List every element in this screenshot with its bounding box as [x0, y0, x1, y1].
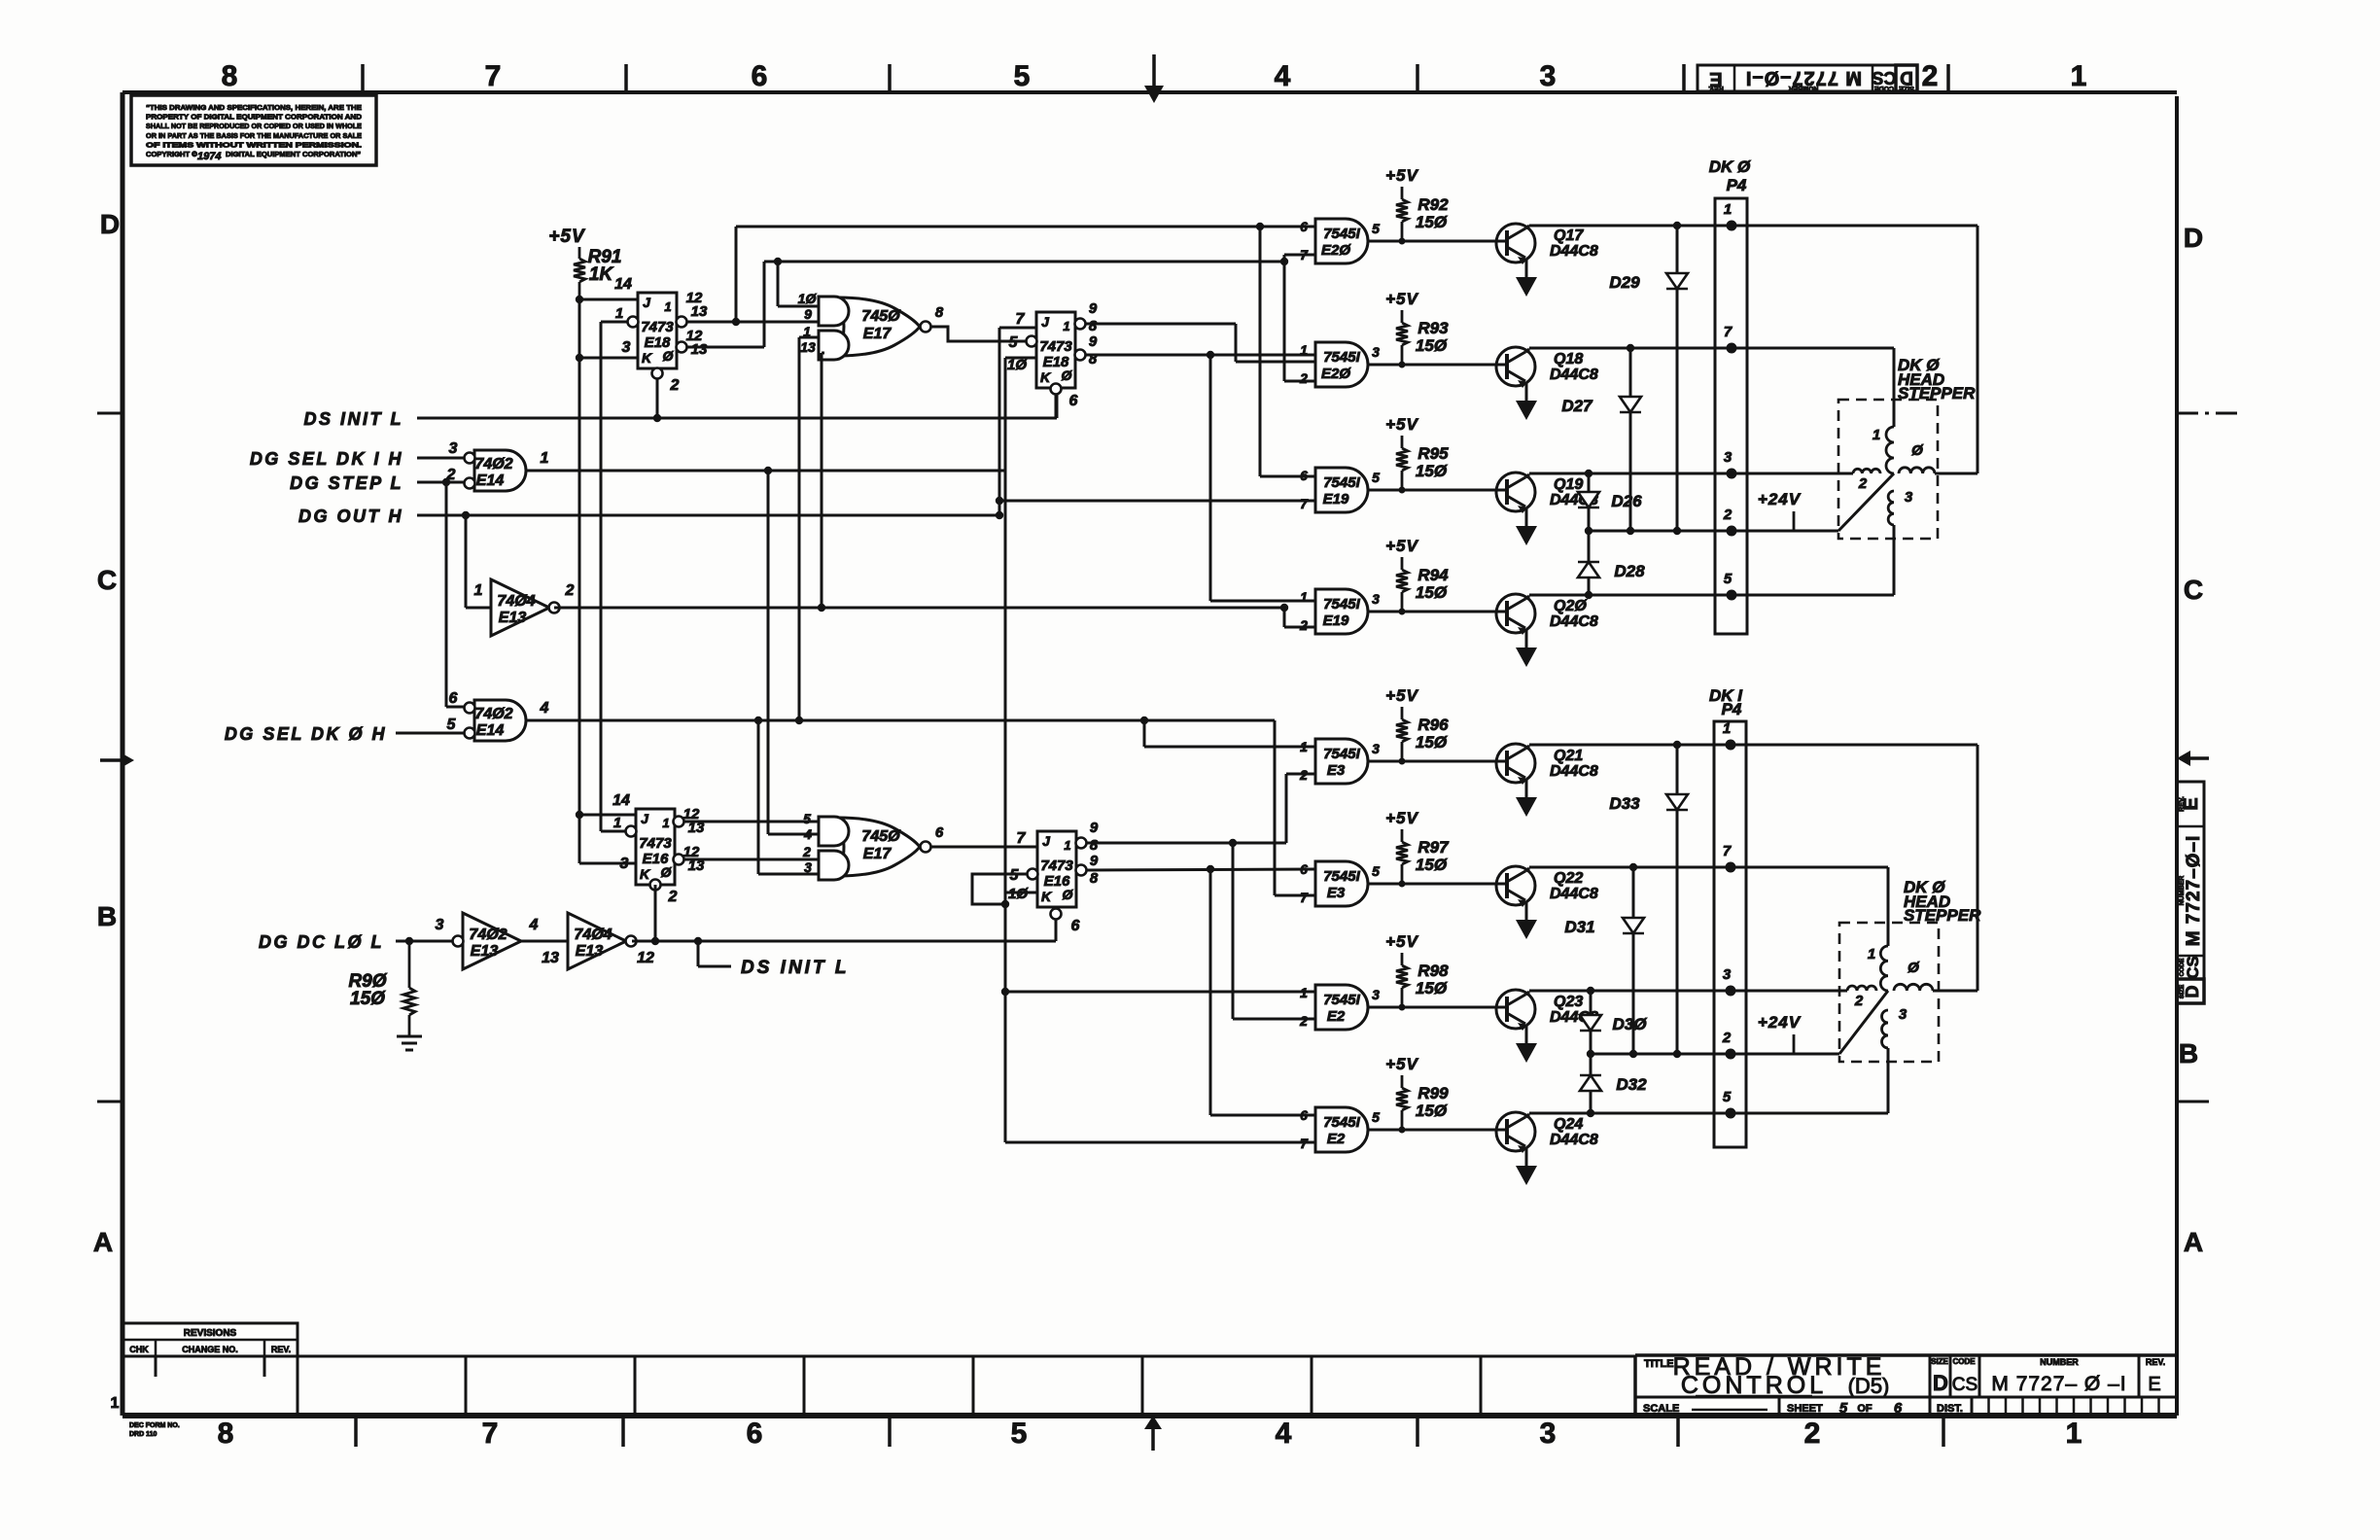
svg-text:DG SEL DK Ø H: DG SEL DK Ø H — [225, 724, 387, 744]
svg-text:3: 3 — [1905, 489, 1913, 506]
svg-text:9: 9 — [1089, 300, 1098, 317]
svg-text:6: 6 — [1894, 1400, 1903, 1417]
svg-text:1: 1 — [1063, 319, 1069, 333]
svg-text:6: 6 — [1300, 1107, 1308, 1123]
svg-text:4: 4 — [1276, 1417, 1292, 1450]
svg-text:D: D — [1933, 1371, 1948, 1395]
svg-text:3: 3 — [1540, 60, 1557, 92]
svg-text:Ø: Ø — [1063, 887, 1074, 902]
svg-text:7473: 7473 — [639, 835, 672, 852]
svg-text:8: 8 — [1090, 870, 1099, 887]
svg-text:5: 5 — [1372, 470, 1380, 485]
svg-text:REV.: REV. — [271, 1345, 291, 1354]
svg-text:1: 1 — [541, 450, 549, 467]
svg-text:3: 3 — [620, 856, 629, 872]
svg-text:OF: OF — [1857, 1403, 1872, 1415]
svg-text:6: 6 — [752, 60, 768, 92]
svg-text:1Ø: 1Ø — [798, 291, 818, 306]
svg-text:D31: D31 — [1564, 918, 1594, 936]
svg-text:3: 3 — [1724, 449, 1732, 466]
svg-text:CODE: CODE — [1952, 1357, 1976, 1366]
svg-text:9: 9 — [1089, 333, 1098, 350]
svg-text:D27: D27 — [1561, 397, 1593, 415]
svg-text:SHALL NOT BE REPRODUCED OR COP: SHALL NOT BE REPRODUCED OR COPIED OR USE… — [146, 122, 362, 130]
svg-text:C: C — [97, 565, 117, 595]
svg-text:3: 3 — [1372, 741, 1380, 756]
svg-text:8: 8 — [935, 304, 944, 321]
svg-text:J: J — [1041, 314, 1050, 330]
svg-text:SIZE: SIZE — [2179, 984, 2186, 998]
svg-text:5: 5 — [803, 811, 811, 826]
svg-text:Ø: Ø — [1911, 442, 1924, 459]
svg-text:9: 9 — [804, 306, 812, 322]
svg-text:E2: E2 — [1327, 1008, 1346, 1025]
svg-text:D44C8: D44C8 — [1550, 886, 1598, 902]
svg-text:E17: E17 — [863, 846, 892, 862]
svg-text:7: 7 — [485, 60, 502, 92]
svg-text:REVISIONS: REVISIONS — [184, 1328, 237, 1339]
svg-text:B: B — [2179, 1038, 2198, 1068]
svg-text:CS: CS — [1872, 68, 1896, 87]
svg-text:3: 3 — [1372, 987, 1380, 1002]
svg-text:K: K — [642, 350, 652, 366]
svg-text:13: 13 — [691, 341, 708, 358]
svg-text:7545I: 7545I — [1323, 746, 1360, 762]
svg-text:15Ø: 15Ø — [1416, 1102, 1448, 1120]
svg-text:OF ITEMS WITHOUT WRITTEN PERMI: OF ITEMS WITHOUT WRITTEN PERMISSION. — [146, 140, 362, 149]
svg-text:7545I: 7545I — [1323, 1114, 1360, 1131]
svg-text:NUMBER: NUMBER — [1789, 85, 1819, 91]
svg-text:5: 5 — [1372, 221, 1380, 236]
svg-text:REV.: REV. — [2146, 1357, 2165, 1367]
svg-text:1: 1 — [613, 815, 621, 831]
svg-text:E13: E13 — [471, 943, 499, 960]
svg-text:2: 2 — [668, 889, 678, 905]
svg-text:J: J — [1042, 833, 1051, 849]
svg-text:2: 2 — [446, 467, 456, 483]
svg-text:1Ø: 1Ø — [1007, 357, 1028, 373]
svg-text:A: A — [2184, 1227, 2203, 1257]
svg-text:+5V: +5V — [548, 227, 585, 247]
svg-text:Q24: Q24 — [1554, 1116, 1583, 1133]
svg-text:+5V: +5V — [1385, 166, 1418, 185]
svg-text:7545I: 7545I — [1323, 474, 1360, 491]
svg-text:D3Ø: D3Ø — [1613, 1015, 1648, 1033]
svg-text:1: 1 — [1872, 427, 1880, 443]
svg-text:6: 6 — [747, 1417, 763, 1450]
svg-text:J: J — [643, 295, 651, 310]
svg-text:B: B — [97, 901, 117, 931]
svg-text:D44C8: D44C8 — [1550, 763, 1598, 780]
svg-text:D: D — [2184, 223, 2203, 253]
svg-text:2: 2 — [1299, 617, 1308, 633]
svg-text:DG DC LØ L: DG DC LØ L — [259, 932, 384, 952]
svg-text:7: 7 — [1300, 1136, 1309, 1151]
svg-text:DG STEP L: DG STEP L — [290, 473, 403, 493]
svg-text:15Ø: 15Ø — [1416, 213, 1448, 231]
svg-text:R99: R99 — [1417, 1084, 1449, 1102]
svg-text:CODE: CODE — [1874, 85, 1895, 91]
svg-text:CODE: CODE — [2179, 958, 2186, 976]
svg-text:OR IN PART AS THE BASIS FOR TH: OR IN PART AS THE BASIS FOR THE MANUFACT… — [146, 131, 362, 140]
svg-text:8: 8 — [1089, 318, 1098, 334]
svg-text:14: 14 — [614, 276, 632, 293]
svg-text:DRD 110: DRD 110 — [129, 1431, 157, 1438]
svg-text:K: K — [1040, 369, 1051, 385]
svg-text:DS INIT L: DS INIT L — [741, 958, 849, 978]
svg-text:74Ø4: 74Ø4 — [574, 927, 612, 943]
svg-text:5: 5 — [1839, 1400, 1848, 1417]
svg-text:5: 5 — [1014, 60, 1031, 92]
svg-text:3: 3 — [622, 339, 631, 356]
svg-text:2: 2 — [1299, 767, 1308, 783]
svg-text:PROPERTY OF DIGITAL EQUIPMENT: PROPERTY OF DIGITAL EQUIPMENT CORPORATIO… — [146, 113, 363, 122]
svg-text:8: 8 — [218, 1417, 234, 1450]
svg-text:DIST.: DIST. — [1937, 1403, 1963, 1415]
svg-text:9: 9 — [1090, 820, 1099, 836]
svg-text:3: 3 — [436, 917, 444, 933]
svg-text:1: 1 — [2066, 1417, 2082, 1450]
svg-text:1: 1 — [615, 305, 623, 322]
svg-text:SHEET: SHEET — [1787, 1403, 1823, 1415]
svg-text:7: 7 — [1300, 496, 1309, 511]
svg-text:7473: 7473 — [1040, 857, 1073, 874]
svg-text:D33: D33 — [1609, 794, 1640, 813]
svg-text:5: 5 — [1723, 1089, 1732, 1105]
svg-text:7545I: 7545I — [1323, 226, 1360, 242]
svg-text:13: 13 — [800, 339, 816, 355]
svg-text:4: 4 — [1275, 60, 1291, 92]
svg-text:K: K — [1041, 889, 1052, 904]
svg-text:7473: 7473 — [641, 319, 674, 335]
svg-text:+5V: +5V — [1385, 932, 1418, 951]
svg-text:D: D — [2183, 986, 2202, 998]
svg-text:7: 7 — [482, 1417, 499, 1450]
svg-text:+5V: +5V — [1385, 415, 1418, 434]
svg-text:1: 1 — [1724, 201, 1732, 218]
svg-text:Ø: Ø — [663, 348, 675, 364]
svg-text:E3: E3 — [1327, 885, 1346, 901]
svg-text:5: 5 — [1009, 334, 1019, 351]
svg-text:74Ø4: 74Ø4 — [497, 593, 535, 610]
svg-text:5: 5 — [1011, 1417, 1028, 1450]
svg-text:15Ø: 15Ø — [1416, 979, 1448, 997]
svg-text:M 7727–Ø–I: M 7727–Ø–I — [2184, 835, 2204, 947]
svg-text:E2: E2 — [1327, 1131, 1346, 1147]
svg-text:E2Ø: E2Ø — [1321, 242, 1351, 259]
svg-text:STEPPER: STEPPER — [1904, 906, 1981, 925]
svg-text:E14: E14 — [476, 472, 505, 489]
svg-text:15Ø: 15Ø — [1416, 462, 1448, 480]
svg-text:E14: E14 — [476, 722, 505, 739]
svg-text:+24V: +24V — [1758, 490, 1802, 508]
svg-text:1: 1 — [1300, 739, 1308, 754]
svg-text:1: 1 — [664, 299, 671, 314]
svg-text:745Ø: 745Ø — [861, 308, 900, 325]
svg-text:8: 8 — [1090, 837, 1099, 854]
svg-text:2: 2 — [1922, 60, 1939, 92]
svg-text:745Ø: 745Ø — [861, 828, 900, 845]
svg-text:CHK: CHK — [129, 1345, 149, 1354]
svg-text:STEPPER: STEPPER — [1898, 384, 1976, 402]
svg-text:9: 9 — [1090, 853, 1099, 869]
svg-text:NUMBER: NUMBER — [2040, 1357, 2079, 1367]
svg-text:2: 2 — [670, 377, 680, 394]
svg-text:DIGITAL EQUIPMENT CORPORATION”: DIGITAL EQUIPMENT CORPORATION” — [226, 150, 361, 158]
svg-text:E3: E3 — [1327, 762, 1346, 779]
svg-text:2: 2 — [1722, 1030, 1732, 1046]
svg-text:SIZE: SIZE — [1931, 1357, 1948, 1366]
svg-text:5: 5 — [1372, 1109, 1380, 1125]
svg-text:1: 1 — [111, 1395, 120, 1412]
svg-text:1: 1 — [1723, 720, 1731, 737]
svg-text:13: 13 — [542, 950, 559, 966]
svg-text:1K: 1K — [589, 264, 614, 285]
svg-text:+5V: +5V — [1385, 686, 1418, 705]
svg-text:1: 1 — [1868, 946, 1875, 962]
svg-text:R92: R92 — [1417, 195, 1449, 214]
svg-text:7: 7 — [1724, 324, 1732, 340]
svg-text:+5V: +5V — [1385, 290, 1418, 308]
svg-text:D44C8: D44C8 — [1550, 1132, 1598, 1148]
svg-text:P4: P4 — [1722, 700, 1742, 718]
svg-text:7545I: 7545I — [1323, 868, 1360, 885]
svg-text:1: 1 — [1300, 589, 1308, 605]
svg-text:K: K — [640, 866, 650, 882]
svg-text:E: E — [2148, 1374, 2160, 1395]
svg-text:7: 7 — [1723, 843, 1732, 859]
svg-text:7473: 7473 — [1039, 338, 1072, 355]
svg-text:TITLE: TITLE — [1644, 1358, 1674, 1370]
svg-text:13: 13 — [691, 303, 708, 320]
svg-text:E19: E19 — [1323, 612, 1349, 629]
svg-text:Q23: Q23 — [1554, 994, 1583, 1010]
svg-text:CHANGE NO.: CHANGE NO. — [182, 1345, 238, 1354]
svg-text:NUMBER: NUMBER — [2179, 876, 2186, 906]
svg-text:3: 3 — [1372, 344, 1380, 360]
svg-text:7: 7 — [1300, 890, 1309, 905]
svg-text:C: C — [2184, 575, 2203, 605]
svg-text:3: 3 — [1723, 966, 1732, 983]
svg-text:A: A — [93, 1227, 113, 1257]
svg-text:14: 14 — [612, 792, 630, 809]
svg-text:Ø: Ø — [1907, 960, 1920, 976]
svg-text:6: 6 — [1300, 468, 1308, 483]
svg-text:2: 2 — [565, 582, 575, 599]
svg-text:D29: D29 — [1609, 273, 1640, 292]
svg-text:3: 3 — [449, 440, 458, 457]
svg-text:5: 5 — [1372, 863, 1380, 879]
svg-text:+5V: +5V — [1385, 809, 1418, 827]
svg-text:E17: E17 — [863, 326, 892, 342]
svg-text:REV.: REV. — [2179, 796, 2186, 812]
svg-text:R95: R95 — [1417, 444, 1449, 463]
svg-text:7545I: 7545I — [1323, 596, 1360, 612]
svg-text:1: 1 — [2071, 60, 2087, 92]
svg-text:D: D — [1900, 67, 1913, 87]
svg-text:+5V: +5V — [1385, 537, 1418, 555]
svg-text:15Ø: 15Ø — [1416, 336, 1448, 355]
svg-text:7545I: 7545I — [1323, 992, 1360, 1008]
svg-text:15Ø: 15Ø — [1416, 733, 1448, 752]
svg-text:E13: E13 — [576, 943, 604, 960]
svg-text:3: 3 — [1540, 1417, 1557, 1450]
svg-text:R97: R97 — [1417, 838, 1450, 857]
svg-text:1: 1 — [474, 582, 483, 599]
svg-text:Q17: Q17 — [1554, 227, 1584, 244]
svg-text:R93: R93 — [1417, 319, 1449, 337]
svg-text:Q2Ø: Q2Ø — [1554, 598, 1587, 614]
svg-text:Ø: Ø — [1062, 367, 1073, 383]
svg-text:6: 6 — [1300, 861, 1308, 877]
svg-text:DK Ø: DK Ø — [1709, 157, 1751, 176]
svg-text:Q21: Q21 — [1554, 748, 1583, 764]
svg-text:3: 3 — [1372, 591, 1380, 607]
svg-text:D44C8: D44C8 — [1550, 367, 1598, 383]
svg-text:2: 2 — [802, 844, 811, 859]
svg-text:D: D — [100, 209, 120, 239]
svg-text:P4: P4 — [1727, 176, 1747, 194]
svg-text:E13: E13 — [499, 610, 527, 626]
svg-text:5: 5 — [447, 717, 457, 733]
svg-text:Q18: Q18 — [1554, 351, 1583, 367]
svg-text:D26: D26 — [1611, 492, 1642, 510]
svg-text:7: 7 — [1017, 830, 1027, 847]
svg-text:2: 2 — [1299, 370, 1308, 386]
svg-text:15Ø: 15Ø — [1416, 583, 1448, 602]
svg-text:7545I: 7545I — [1323, 349, 1360, 366]
svg-text:1: 1 — [1300, 985, 1308, 1000]
svg-text:DEC FORM NO.: DEC FORM NO. — [129, 1422, 180, 1429]
svg-text:D44C8: D44C8 — [1550, 613, 1598, 630]
svg-text:D44C8: D44C8 — [1550, 243, 1598, 260]
svg-text:74Ø2: 74Ø2 — [474, 456, 512, 472]
svg-text:REV.: REV. — [1708, 85, 1724, 91]
svg-text:74Ø2: 74Ø2 — [474, 706, 512, 722]
svg-text:Q22: Q22 — [1554, 870, 1583, 887]
svg-text:6: 6 — [935, 824, 944, 841]
svg-text:SCALE: SCALE — [1643, 1403, 1679, 1415]
svg-text:+5V: +5V — [1385, 1055, 1418, 1073]
svg-text:“THIS DRAWING AND SPECIFICATIO: “THIS DRAWING AND SPECIFICATIONS, HEREIN… — [146, 103, 362, 112]
svg-text:D32: D32 — [1616, 1075, 1647, 1094]
svg-text:D28: D28 — [1614, 562, 1645, 580]
svg-text:6: 6 — [1300, 219, 1308, 234]
svg-text:1974: 1974 — [197, 151, 221, 162]
svg-text:J: J — [641, 811, 649, 826]
svg-text:4: 4 — [540, 700, 549, 717]
svg-text:6: 6 — [1071, 918, 1080, 934]
svg-text:CS: CS — [2184, 956, 2202, 979]
svg-text:74Ø2: 74Ø2 — [469, 927, 507, 943]
svg-text:8: 8 — [222, 60, 238, 92]
svg-text:6: 6 — [1069, 393, 1078, 409]
svg-text:3: 3 — [1899, 1006, 1907, 1023]
svg-text:1: 1 — [1064, 838, 1070, 853]
svg-text:E2Ø: E2Ø — [1321, 366, 1351, 382]
svg-text:15Ø: 15Ø — [350, 989, 386, 1009]
svg-text:4: 4 — [529, 917, 539, 933]
svg-text:DG SEL DK I H: DG SEL DK I H — [250, 449, 403, 469]
svg-text:7: 7 — [1016, 311, 1026, 328]
svg-text:M 7727– Ø –I: M 7727– Ø –I — [1991, 1373, 2126, 1395]
svg-text:COPYRIGHT ©: COPYRIGHT © — [146, 150, 197, 158]
svg-text:7: 7 — [1300, 247, 1309, 262]
svg-text:6: 6 — [449, 690, 458, 707]
svg-text:E19: E19 — [1323, 491, 1349, 507]
svg-text:12: 12 — [637, 950, 654, 966]
svg-text:+24V: +24V — [1758, 1013, 1802, 1032]
svg-text:2: 2 — [1723, 507, 1732, 523]
svg-text:R98: R98 — [1417, 962, 1449, 980]
svg-text:2: 2 — [1804, 1417, 1821, 1450]
svg-text:2: 2 — [1299, 1013, 1308, 1029]
svg-text:2: 2 — [1858, 475, 1868, 492]
svg-text:R96: R96 — [1417, 716, 1449, 734]
svg-text:SIZE: SIZE — [1899, 85, 1914, 91]
svg-text:Ø: Ø — [661, 864, 673, 880]
svg-text:DG OUT H: DG OUT H — [298, 507, 403, 526]
svg-text:CS: CS — [1952, 1375, 1977, 1395]
svg-text:2: 2 — [1854, 993, 1864, 1009]
svg-text:DS INIT L: DS INIT L — [304, 409, 404, 429]
svg-text:5: 5 — [1724, 571, 1732, 587]
svg-text:1: 1 — [662, 816, 669, 830]
svg-text:1: 1 — [1300, 342, 1308, 358]
svg-text:R94: R94 — [1417, 566, 1449, 584]
svg-text:(D5): (D5) — [1848, 1374, 1890, 1398]
svg-text:Q19: Q19 — [1554, 476, 1583, 493]
svg-text:15Ø: 15Ø — [1416, 856, 1448, 874]
